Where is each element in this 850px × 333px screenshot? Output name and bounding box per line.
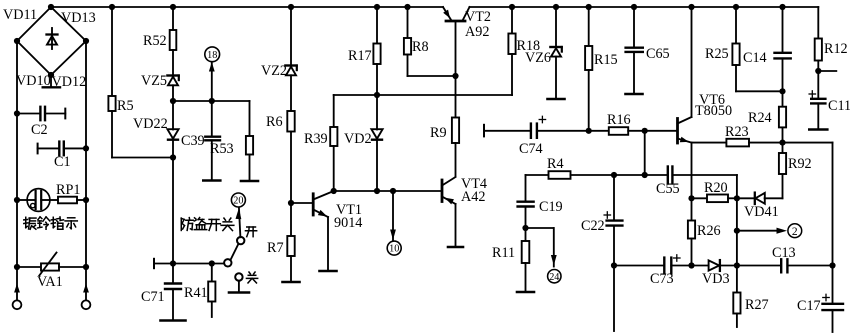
wire column x737: [736, 175, 738, 266]
resistor R41: [184, 264, 215, 318]
svg-text:C73: C73: [650, 271, 674, 287]
svg-text:VT2: VT2: [465, 9, 491, 25]
label anti-theft switch (Chinese): [181, 218, 234, 231]
resistor R27: [733, 266, 768, 328]
label ring-indicator (Chinese): [24, 217, 78, 229]
svg-text:C11: C11: [828, 98, 850, 114]
svg-text:20: 20: [233, 196, 243, 207]
svg-text:VD3: VD3: [702, 271, 730, 287]
resistor R8: [404, 4, 456, 76]
svg-text:R39: R39: [304, 131, 328, 147]
pin 2 connector: [734, 224, 802, 238]
wire right phone rail: [85, 41, 87, 300]
wire base bias row: [334, 92, 512, 98]
wire VT1 collector node: [331, 188, 442, 194]
svg-text:2: 2: [792, 226, 798, 238]
svg-text:C1: C1: [54, 154, 71, 170]
resistor R12: [815, 7, 848, 99]
transistor VT4 A42: [442, 176, 487, 247]
svg-text:R53: R53: [210, 141, 234, 157]
svg-text:C14: C14: [743, 50, 767, 66]
svg-text:9014: 9014: [334, 215, 362, 231]
svg-text:R9: R9: [430, 125, 447, 141]
svg-text:VZ5: VZ5: [141, 73, 167, 89]
resistor R6: [266, 111, 295, 236]
resistor R16: [589, 112, 678, 135]
svg-text:C19: C19: [539, 199, 563, 215]
svg-text:R6: R6: [266, 114, 283, 130]
resistor R4: [526, 156, 668, 179]
svg-text:24: 24: [549, 272, 559, 283]
resistor R52: [143, 4, 176, 75]
svg-text:RP1: RP1: [56, 182, 80, 198]
svg-text:10: 10: [389, 244, 399, 255]
capacitor C1: [38, 142, 90, 170]
capacitor C22: [581, 175, 622, 331]
capacitor C17: [797, 294, 843, 314]
svg-text:C71: C71: [141, 289, 165, 305]
svg-text:R17: R17: [348, 48, 372, 64]
resistor R24: [748, 91, 786, 145]
svg-text:VZ2: VZ2: [261, 63, 287, 79]
neon lamp ring indicator: [14, 189, 50, 212]
svg-text:T8050: T8050: [695, 103, 732, 119]
resistor R92: [779, 143, 812, 174]
capacitor C19: [518, 175, 563, 231]
wire left phone rail: [16, 41, 18, 300]
resistor R53: [210, 101, 258, 181]
svg-text:C17: C17: [797, 298, 821, 314]
switch anti-theft: [224, 237, 249, 293]
svg-text:R27: R27: [745, 297, 769, 313]
resistor RP1: [50, 182, 90, 203]
label switch OFF (Chinese): [246, 272, 257, 283]
wire switch row with stub: [154, 259, 225, 268]
pin 18 connector: [205, 47, 220, 101]
svg-text:VD41: VD41: [744, 204, 779, 220]
svg-text:R24: R24: [748, 110, 772, 126]
capacitor C39: [181, 101, 220, 181]
capacitor C14: [743, 4, 791, 95]
label switch ON (Chinese): [245, 227, 256, 237]
svg-text:VD13: VD13: [61, 10, 96, 26]
wire link R16 row to R4 row: [644, 131, 646, 175]
svg-text:R92: R92: [788, 156, 812, 172]
node wire VZ5 bottom: [170, 98, 250, 104]
zener VZ5: [141, 73, 179, 101]
resistor R39: [304, 95, 337, 191]
svg-text:R12: R12: [824, 41, 848, 57]
svg-text:R23: R23: [725, 124, 749, 140]
resistor R18: [508, 4, 540, 95]
svg-text:C13: C13: [772, 245, 796, 261]
svg-text:C2: C2: [31, 122, 48, 138]
svg-text:R25: R25: [705, 46, 729, 62]
capacitor C74: [484, 116, 589, 157]
varistor VA1: [14, 253, 89, 291]
svg-text:R52: R52: [143, 33, 167, 49]
capacitor C2: [14, 107, 65, 138]
wire top rail right segment: [470, 6, 819, 8]
svg-text:R16: R16: [607, 112, 631, 128]
resistor R25: [705, 4, 783, 91]
capacitor C73: [614, 255, 692, 287]
zener VZ2: [261, 4, 297, 111]
svg-text:R26: R26: [697, 223, 721, 239]
svg-text:C65: C65: [646, 46, 670, 62]
terminal left phone line: [13, 284, 22, 310]
diode bridge VD10-VD13: [3, 4, 96, 90]
svg-text:R4: R4: [547, 156, 564, 172]
capacitor C65: [626, 4, 670, 94]
svg-text:VZ6: VZ6: [525, 50, 551, 66]
resistor R20: [692, 180, 741, 202]
transistor VT2 A92: [443, 7, 491, 118]
svg-text:VD2: VD2: [344, 131, 372, 147]
pin 24 connector: [526, 228, 562, 283]
capacitor C55: [656, 167, 737, 198]
resistor R11: [492, 228, 534, 292]
resistor R5: [108, 4, 133, 158]
diode VD2: [344, 95, 383, 191]
ground under bridge: [43, 75, 60, 87]
wire R5 to VD22 node: [112, 157, 173, 159]
svg-text:VD11: VD11: [3, 7, 37, 23]
svg-text:R11: R11: [492, 245, 515, 261]
wire top rail left segment: [51, 6, 443, 8]
resistor R15: [585, 4, 618, 134]
svg-text:R20: R20: [704, 180, 728, 196]
svg-text:C74: C74: [519, 141, 543, 157]
svg-text:18: 18: [207, 50, 217, 61]
resistor R17: [348, 4, 381, 95]
wire right rail: [829, 143, 835, 332]
svg-text:R7: R7: [267, 240, 284, 256]
resistor R23: [692, 124, 833, 146]
diode VD41: [737, 174, 783, 220]
svg-text:VA1: VA1: [37, 274, 63, 290]
transistor VT6 T8050: [678, 4, 733, 198]
svg-text:R5: R5: [117, 98, 134, 114]
pin 20 connector: [231, 193, 245, 237]
svg-text:C22: C22: [581, 218, 605, 234]
resistor R26: [688, 198, 721, 268]
terminal right phone line: [82, 284, 91, 310]
diode VD3: [692, 260, 741, 287]
wire emitter column junctions: [688, 195, 694, 201]
svg-text:C39: C39: [181, 133, 205, 149]
svg-text:R41: R41: [184, 285, 208, 301]
svg-text:R15: R15: [594, 52, 618, 68]
svg-text:C55: C55: [656, 181, 680, 197]
diode VD22: [133, 101, 179, 264]
resistor R9: [430, 118, 459, 177]
svg-text:R8: R8: [412, 39, 429, 55]
svg-text:A42: A42: [461, 189, 485, 205]
svg-text:A92: A92: [465, 24, 489, 40]
zener VZ6: [525, 4, 565, 99]
capacitor C71: [141, 264, 186, 321]
resistor R7: [267, 236, 300, 282]
svg-text:VD22: VD22: [133, 116, 168, 132]
capacitor C11: [809, 91, 850, 130]
transistor VT1 9014: [291, 191, 362, 271]
capacitor C13: [737, 245, 833, 272]
pin 10 connector: [387, 191, 401, 255]
